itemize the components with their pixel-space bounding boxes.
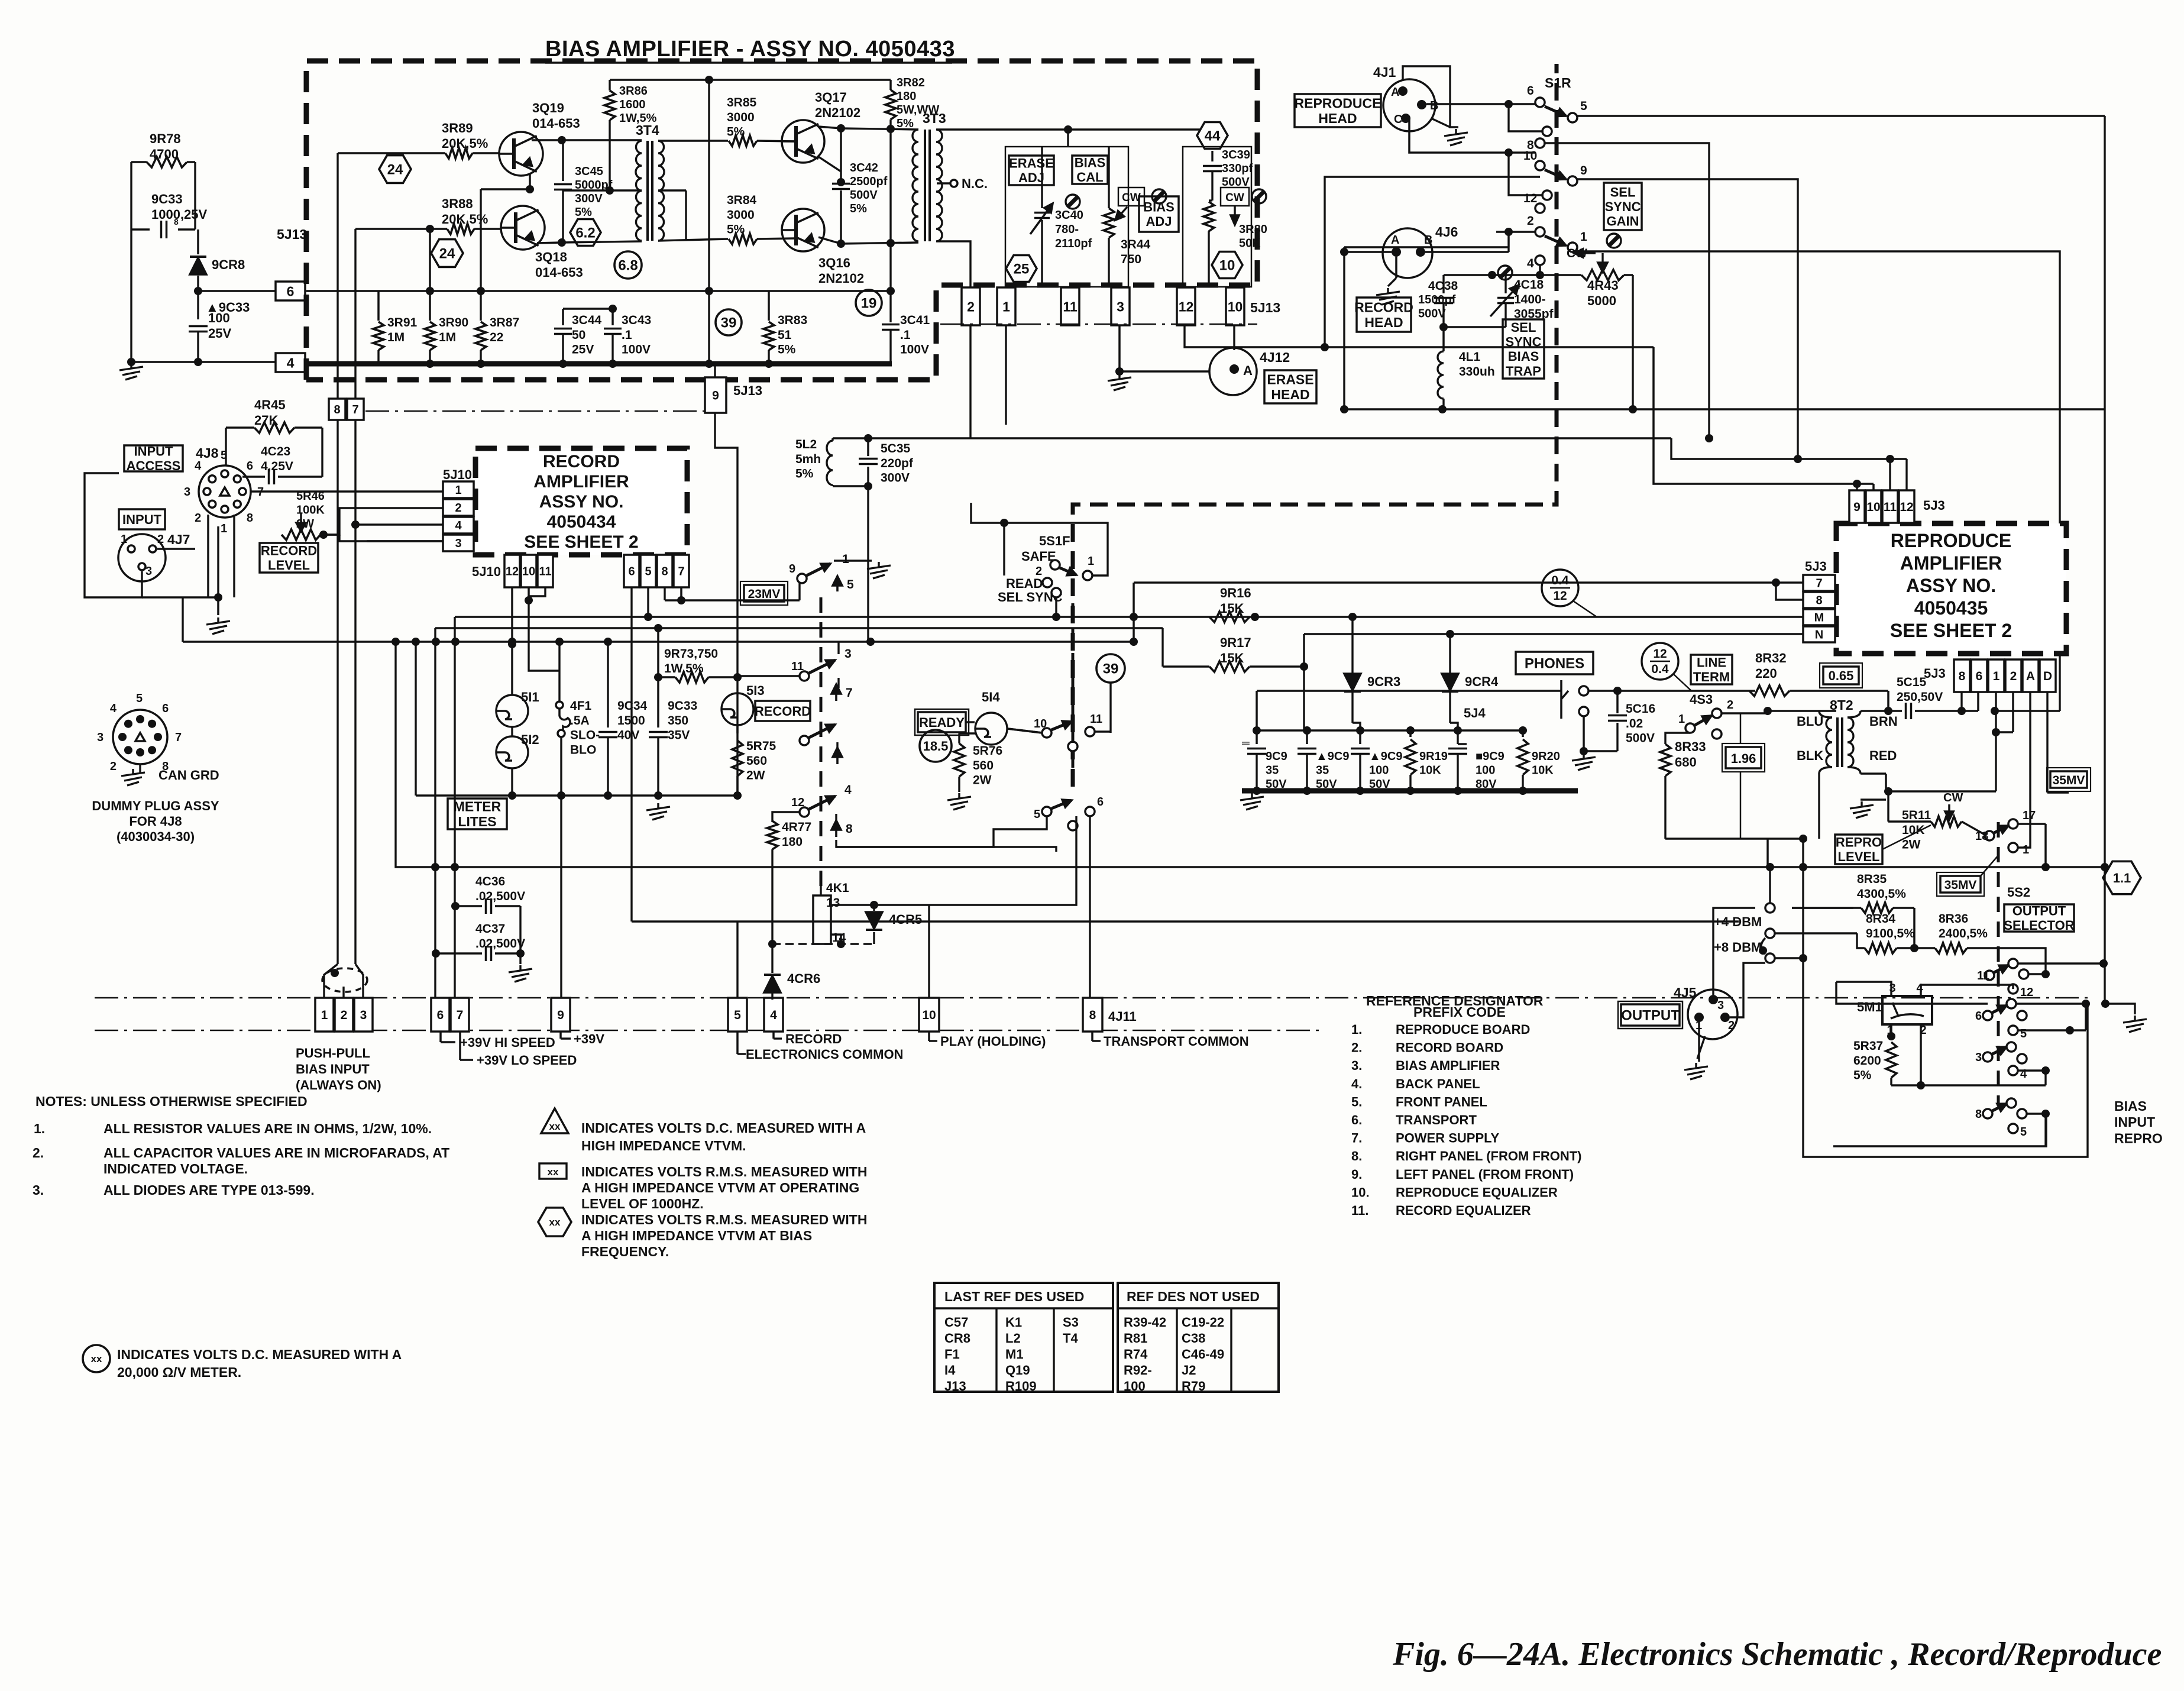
circle flag 39 (bias box) (716, 309, 742, 335)
svg-text:100V: 100V (900, 343, 929, 357)
svg-text:6.2: 6.2 (575, 225, 595, 241)
svg-text:HEAD: HEAD (1364, 315, 1403, 330)
svg-text:5C15: 5C15 (1897, 675, 1927, 689)
svg-text:ADJ: ADJ (1018, 170, 1044, 185)
ground (under 5J13-3) (1118, 374, 1120, 379)
svg-text:2W: 2W (973, 774, 992, 787)
svg-text:A HIGH IMPEDANCE VTVM AT: A HIGH IMPEDANCE VTVM AT BIAS (581, 1228, 812, 1243)
lamp 5I1 (496, 695, 528, 727)
hex flag 24 (upper) (379, 156, 411, 183)
svg-text:3Q17: 3Q17 (815, 90, 847, 105)
switch 5S1 section A (11/3/7) (800, 671, 809, 681)
wire: 4J1-B to S1R-6 (1426, 103, 1535, 105)
svg-text:9R78: 9R78 (150, 131, 181, 146)
wire: meter lites common y1345 (416, 794, 737, 796)
resistor 3R87 22 (vertical) (475, 322, 486, 350)
svg-text:ADJ: ADJ (1146, 214, 1172, 229)
svg-text:METER: METER (454, 798, 501, 814)
svg-text:REPRODUCE: REPRODUCE (1891, 530, 2011, 551)
svg-text:LAST REF DES USED: LAST REF DES USED (944, 1289, 1084, 1304)
wire: 4J6-A to x2273 (1344, 251, 1392, 253)
capacitor 5C35 220pf 300V (831, 438, 833, 441)
svg-text:A: A (1243, 363, 1253, 378)
+4 DBM contact (1765, 903, 1775, 913)
svg-text:1: 1 (1580, 230, 1587, 244)
svg-text:Q19: Q19 (1005, 1363, 1030, 1378)
svg-text:330pf: 330pf (1222, 162, 1253, 175)
resistor 3R90 1M (vertical) (429, 229, 431, 321)
inductor 5L2 5mh 5% (827, 441, 833, 485)
switch 5/6 (transport) (1042, 807, 1051, 816)
svg-text:SEE SHEET 2: SEE SHEET 2 (524, 532, 638, 552)
svg-text:5: 5 (645, 565, 651, 578)
bias adjust sub-box (1183, 147, 1251, 287)
wire: 4J1 pin frame (1403, 66, 1458, 127)
wire: 6-line inside bias box (306, 290, 891, 292)
svg-text:PLAY (HOLDING): PLAY (HOLDING) (940, 1034, 1046, 1049)
svg-text:100: 100 (1124, 1379, 1146, 1393)
screw adjust (sel sync bias trap) (1498, 266, 1512, 280)
connector 5J10 pin 8 (bottom) (657, 555, 672, 587)
capacitor 5C15 250,50V (1888, 710, 1902, 712)
svg-text:18: 18 (1975, 830, 1988, 843)
wire: 4J1-C to S1R-10 (1409, 118, 1535, 153)
svg-text:Fig. 6—24A. Electronics Sc: Fig. 6—24A. Electronics Schematic , Reco… (1392, 1636, 2162, 1673)
svg-text:4050434: 4050434 (547, 512, 616, 532)
svg-text:20K,5%: 20K,5% (442, 136, 488, 151)
wire: switch 5/6 wiring (836, 816, 1047, 847)
svg-text:750: 750 (1121, 253, 1141, 266)
wire: 3Q18 emitter node (537, 243, 562, 243)
wire: 5J13-9 down to rail x1247 (715, 413, 737, 796)
svg-text:1: 1 (121, 533, 127, 546)
wire: 4J5 pin2 right (1730, 963, 1765, 1017)
connector 5J13 pin 9 (below bias box) (705, 377, 726, 413)
wire: sel sync switch 5S1F frame (971, 503, 1108, 575)
svg-text:35: 35 (1266, 764, 1279, 777)
wire: S1R-1 to x3483 (1576, 251, 2060, 711)
svg-text:2: 2 (1727, 699, 1733, 712)
svg-text:3Q18: 3Q18 (535, 250, 567, 264)
connector 5J10 pin 7 (bottom) (674, 555, 689, 587)
switch 9/1/5 (record relay contact) (797, 574, 807, 583)
connector 4J11 pin 9 (551, 998, 570, 1032)
svg-text:12: 12 (791, 796, 804, 809)
svg-text:R92-: R92- (1124, 1363, 1152, 1378)
svg-text:(4030034-30): (4030034-30) (117, 829, 195, 844)
svg-text:2: 2 (2010, 670, 2017, 683)
wire: 5J10-8/7 rails (664, 587, 665, 600)
connector 5J13 pin 2 (962, 287, 980, 325)
svg-text:RIGHT PANEL (FROM FRONT): RIGHT PANEL (FROM FRONT) (1396, 1149, 1582, 1163)
svg-text:CAN GRD: CAN GRD (158, 768, 219, 783)
svg-text:+39V LO SPEED: +39V LO SPEED (477, 1053, 577, 1068)
resistor 9R78 (147, 157, 187, 167)
switch output selector section 11/12 (1985, 971, 1994, 980)
svg-text:1: 1 (842, 552, 849, 566)
svg-text:50K: 50K (1239, 237, 1261, 250)
screw adjust (erase adj) (1066, 195, 1080, 209)
svg-text:12: 12 (1653, 647, 1667, 661)
wire: RED junction down (1885, 774, 1887, 791)
svg-text:5M1: 5M1 (1857, 1000, 1882, 1014)
svg-text:6: 6 (1527, 84, 1534, 98)
potentiometer 4R43 5000 (1581, 270, 1624, 280)
wire: S1R-5 to right vertical (1576, 115, 2105, 117)
svg-text:4.: 4. (1351, 1076, 1362, 1091)
connector 4J11 pin 10 (919, 998, 939, 1032)
svg-text:3R82: 3R82 (897, 76, 925, 89)
svg-text:DUMMY PLUG ASSY: DUMMY PLUG ASSY (92, 798, 219, 813)
svg-text:.1: .1 (622, 328, 632, 342)
svg-text:INDICATES VOLTS D.C. MEASUR: INDICATES VOLTS D.C. MEASURED WITH A (117, 1347, 402, 1362)
capacitor 9C34 1500 40V (607, 644, 609, 728)
dashed linkage 5S1F lower (1072, 603, 1075, 787)
wire: 3Q19 collector node (532, 139, 562, 141)
connector 5J13 pin 8 (below bias box) (329, 399, 345, 420)
svg-text:LEFT PANEL (FROM FRONT): LEFT PANEL (FROM FRONT) (1396, 1167, 1574, 1182)
diode 4CR5 (873, 905, 875, 911)
svg-text:RECORD: RECORD (543, 452, 620, 471)
wire: 3Q17 collector to x1422 (818, 127, 841, 128)
svg-text:C19-22: C19-22 (1182, 1315, 1224, 1330)
svg-text:HEAD: HEAD (1318, 111, 1357, 126)
connector 5J3 pin 9 (1849, 490, 1865, 523)
wire: head common y692 (1344, 408, 2105, 410)
svg-text:500V: 500V (850, 189, 878, 202)
svg-text:5: 5 (1034, 808, 1040, 821)
wire: S1R-4 down to 4R43 rail (1539, 265, 1541, 275)
svg-text:4: 4 (845, 783, 852, 797)
svg-text:3R87: 3R87 (490, 316, 519, 329)
wire: 4J8 pins down (207, 515, 209, 597)
svg-text:5J3: 5J3 (1923, 498, 1945, 513)
svg-text:9100,5%: 9100,5% (1866, 927, 1915, 940)
capacitor bank 9C9 100 50V (3) (1359, 730, 1361, 744)
svg-text:7: 7 (678, 565, 684, 578)
diode 4CR6 (771, 944, 773, 973)
ground (4J6) (1395, 257, 1397, 278)
svg-text:180: 180 (782, 835, 803, 849)
wire: 5J3 bottom stubs (1960, 692, 1962, 711)
svg-text:3000: 3000 (727, 208, 755, 222)
wire: bias supply top-left loop (130, 162, 132, 362)
svg-text:22: 22 (490, 331, 503, 344)
svg-text:4J6: 4J6 (1435, 224, 1458, 240)
ground (dummy plug) CAN GRD (132, 769, 134, 774)
svg-text:3T3: 3T3 (923, 111, 946, 126)
svg-text:5I1: 5I1 (521, 690, 539, 704)
connector 5J10 pin 10 (bottom) (521, 555, 536, 587)
wire: 10 stub (928, 1032, 930, 1041)
svg-text:9R73,750: 9R73,750 (664, 647, 718, 661)
svg-text:10K: 10K (1532, 764, 1554, 777)
wire: x2993 from 8T2 area (1769, 867, 1771, 903)
svg-text:BIAS: BIAS (2114, 1098, 2147, 1114)
wire: 6/7 stubs (439, 1032, 442, 1042)
svg-text:▲9C9: ▲9C9 (1316, 750, 1349, 763)
legend hexagon flag (538, 1208, 571, 1236)
connector 5J3 pin 2 (bottom) (2005, 659, 2021, 692)
svg-text:7: 7 (1816, 577, 1822, 590)
connector 4J1 reproduce head (1383, 79, 1435, 131)
svg-text:3: 3 (184, 486, 190, 499)
svg-text:RECORD: RECORD (261, 544, 317, 558)
S1R arm 2-1 (1545, 236, 1566, 245)
svg-text:6: 6 (1097, 796, 1104, 809)
svg-text:4,25V: 4,25V (261, 460, 293, 473)
circle flag 18.5 (920, 730, 952, 762)
boxed label REPRO LEVEL (1835, 835, 1882, 864)
svg-text:BIAS INPUT: BIAS INPUT (296, 1062, 370, 1076)
svg-text:7: 7 (175, 731, 182, 744)
svg-text:CW: CW (1943, 791, 1963, 804)
svg-text:2: 2 (157, 533, 164, 546)
resistor 9R73,750 1W,5% (675, 672, 708, 683)
resistor 8R35 4300,5% (1861, 903, 1893, 913)
svg-text:4R77: 4R77 (782, 820, 811, 834)
+8 DBM lower contact (1765, 953, 1775, 963)
boxed label 35MV (upper) (2050, 771, 2087, 788)
capacitor bank 9C9 100 80V (4) (1457, 730, 1458, 744)
svg-text:2500pf: 2500pf (850, 175, 888, 188)
svg-text:4J11: 4J11 (1108, 1009, 1137, 1024)
svg-text:4C23: 4C23 (261, 445, 290, 458)
boxed label RECORD LEVEL (260, 543, 318, 573)
svg-text:4L1: 4L1 (1459, 350, 1481, 364)
svg-text:11: 11 (539, 565, 551, 578)
svg-text:100K: 100K (296, 504, 325, 517)
wire: 4C38/4C18 bottom rail (1444, 326, 1506, 328)
svg-text:680: 680 (1675, 755, 1697, 769)
ground (5R76) (958, 793, 960, 798)
resistor 4R77 180 (767, 821, 778, 849)
svg-text:2: 2 (455, 502, 461, 515)
svg-text:1: 1 (1678, 713, 1685, 726)
svg-text:TRAP: TRAP (1506, 364, 1541, 379)
svg-text:1W,5%: 1W,5% (664, 662, 704, 675)
svg-text:C38: C38 (1182, 1331, 1205, 1346)
circle flag 19 (856, 290, 882, 316)
wire: +4/+8 dbm wires (1792, 907, 1853, 908)
wire: meter pin3 (1836, 982, 1891, 996)
svg-text:3: 3 (145, 565, 152, 578)
svg-text:3: 3 (1117, 299, 1124, 314)
resistor 3R85 3000 5% (729, 135, 757, 146)
connector 4J11 pin 2 (335, 998, 353, 1032)
wire: x1506 rail down (889, 129, 891, 322)
svg-text:■9C9: ■9C9 (1476, 750, 1504, 763)
svg-text:BLU: BLU (1797, 714, 1823, 729)
svg-text:8: 8 (1816, 594, 1822, 607)
switch 5S1 section B (800, 736, 809, 745)
wire: meter pin2 down (1920, 1024, 1922, 1085)
svg-text:39: 39 (721, 315, 737, 331)
flag 1.96 (1726, 747, 1761, 768)
ground (8T2 RED) (1861, 798, 1886, 800)
svg-text:5C35: 5C35 (881, 442, 911, 455)
svg-text:50: 50 (572, 328, 585, 342)
variable capacitor 4C18 1400-3055pf (1504, 275, 1506, 293)
svg-text:.02,500V: .02,500V (475, 890, 525, 903)
switch output selector section 6/5 (1983, 1011, 1992, 1020)
hex flag 6.2 (570, 219, 601, 246)
wire: phones to 5C16 (1588, 690, 1617, 692)
svg-text:3Q16: 3Q16 (818, 256, 850, 270)
wire: selector to right verticals (2044, 963, 2046, 974)
relay linkage dashed (5S1) (820, 597, 823, 895)
svg-text:40V: 40V (617, 729, 639, 742)
svg-text:5: 5 (136, 692, 143, 705)
svg-text:0.4: 0.4 (1551, 574, 1569, 587)
wire: S1R-12 contact route (1325, 177, 1540, 347)
svg-text:3R84: 3R84 (727, 193, 757, 207)
wire: 44 stub to 3C39 (1211, 151, 1213, 161)
svg-text:6: 6 (1976, 670, 1983, 683)
wire: x309 from input ground loop (182, 597, 183, 642)
svg-text:35MV: 35MV (2053, 774, 2085, 787)
svg-text:1: 1 (1993, 670, 2000, 683)
svg-text:6.8: 6.8 (618, 258, 638, 274)
svg-text:PUSH-PULL: PUSH-PULL (296, 1046, 370, 1060)
svg-text:N.C.: N.C. (962, 176, 988, 191)
capacitor 3C42 2500pf 500V 5% (840, 128, 842, 179)
svg-text:5%: 5% (727, 125, 745, 139)
svg-text:10: 10 (1866, 500, 1880, 514)
wire: x736 rail down to 4J11-6 (434, 628, 436, 998)
svg-text:+4 DBM: +4 DBM (1714, 914, 1762, 929)
wire: 9C9 bank top rail (1257, 729, 1523, 731)
svg-text:6200: 6200 (1853, 1054, 1881, 1068)
resistor 8R32 220 (1749, 686, 1790, 696)
svg-text:SEL: SEL (1511, 320, 1536, 335)
svg-text:SLO-: SLO- (570, 729, 600, 742)
svg-text:1600: 1600 (619, 98, 646, 111)
resistor 8R36 2400,5% (1935, 943, 1967, 953)
svg-text:3R91: 3R91 (387, 316, 418, 329)
svg-text:═: ═ (1241, 737, 1250, 749)
svg-text:RECORD: RECORD (1354, 299, 1413, 315)
svg-text:10: 10 (1034, 717, 1047, 730)
wire: long rail L3 y1085 (183, 641, 1134, 642)
boxed label INPUT ACCESS (124, 445, 183, 471)
svg-text:3R89: 3R89 (442, 121, 473, 135)
wire: rail x1247 segments (733, 791, 742, 800)
wire: x2205 link (1303, 634, 1305, 730)
svg-text:.5A: .5A (570, 714, 590, 728)
svg-text:1500pf: 1500pf (1418, 293, 1456, 306)
svg-text:4300,5%: 4300,5% (1857, 887, 1906, 901)
svg-text:REPRO: REPRO (1836, 835, 1882, 850)
wire: dbm contacts to resistors (1775, 932, 1792, 934)
svg-text:ASSY NO.: ASSY NO. (1906, 575, 1996, 596)
svg-text:300V: 300V (881, 471, 910, 485)
svg-text:4: 4 (770, 1008, 777, 1022)
svg-text:S1R: S1R (1545, 75, 1571, 90)
boxed label OUTPUT SELECTOR (2004, 904, 2074, 932)
svg-text:6: 6 (1975, 1010, 1982, 1023)
svg-text:CR8: CR8 (944, 1331, 970, 1346)
svg-text:13: 13 (826, 896, 840, 910)
svg-text:ACCESS: ACCESS (127, 458, 181, 473)
svg-text:5J10: 5J10 (443, 467, 472, 482)
wire: long rail to 5J3-7 (1134, 581, 1776, 584)
potentiometer 5R11 10K 2W (1931, 816, 1962, 827)
legend circle flag (83, 1345, 110, 1372)
svg-text:12: 12 (1523, 192, 1537, 205)
svg-text:A: A (2026, 670, 2035, 683)
connector 5J13 pin 10 (1226, 287, 1244, 325)
svg-text:REF DES NOT USED: REF DES NOT USED (1127, 1289, 1260, 1304)
svg-text:I4: I4 (944, 1363, 956, 1378)
wire: S1R-8 to x2890 (1544, 143, 1709, 438)
svg-text:6: 6 (247, 460, 253, 473)
svg-text:500V: 500V (1418, 308, 1446, 321)
chain line through 5J13 row (940, 324, 1257, 325)
connector 5J3 pin 8 (1803, 592, 1835, 608)
svg-text:8R32: 8R32 (1755, 651, 1787, 665)
svg-text:L2: L2 (1005, 1331, 1021, 1346)
svg-text:3Q19: 3Q19 (532, 101, 564, 115)
svg-text:17: 17 (2023, 809, 2036, 822)
wire: y1015 to record relay switch (681, 599, 800, 601)
wire: x601 bias input rail (354, 229, 356, 964)
S1R contact 8 (1535, 138, 1545, 148)
ground (input) (217, 617, 219, 622)
svg-text:4C38: 4C38 (1428, 279, 1458, 293)
bus: bias common (thick) (306, 361, 892, 367)
wire: 9 stub (559, 1032, 562, 1039)
wire: x1199 rail (708, 80, 710, 364)
connector 5J13 pin 7 (below bias box) (347, 399, 364, 420)
connector 4J11 pin 3 (354, 998, 373, 1032)
circle flag 0.4/12 (1542, 570, 1578, 606)
svg-text:REPRODUCE BOARD: REPRODUCE BOARD (1396, 1022, 1530, 1037)
svg-text:100: 100 (1369, 764, 1389, 777)
wire: 1.96 measurement line (1740, 713, 1742, 743)
svg-text:9: 9 (1853, 500, 1861, 514)
svg-text:2400,5%: 2400,5% (1939, 927, 1988, 940)
boxed label METER LITES (448, 798, 507, 829)
svg-text:1.1: 1.1 (2113, 871, 2131, 885)
svg-text:9CR8: 9CR8 (212, 257, 245, 272)
boxed label OUTPUT (1621, 1004, 1680, 1026)
connector 4J6 record head (1383, 228, 1432, 278)
wire: x769 rail down to 4J11-7 (454, 617, 455, 998)
svg-text:TRANSPORT: TRANSPORT (1396, 1113, 1477, 1127)
svg-text:330uh: 330uh (1459, 365, 1495, 379)
head assembly dashed boundary (1073, 64, 1557, 787)
svg-text:300V: 300V (575, 192, 603, 205)
svg-text:3C41: 3C41 (900, 313, 930, 327)
svg-text:25V: 25V (572, 343, 594, 357)
svg-text:R74: R74 (1124, 1347, 1148, 1362)
svg-text:3T4: 3T4 (636, 122, 659, 138)
wire: feeds into 5J3 9-12 from left (868, 437, 1671, 439)
hex flag 10 (1212, 252, 1243, 279)
resistor 5R76 560 2W (958, 733, 960, 743)
wire: 3Q16 collector rail (818, 237, 841, 244)
wire: y1168 to line term (1617, 690, 1755, 691)
svg-text:3.: 3. (1351, 1058, 1362, 1073)
svg-text:5L2: 5L2 (795, 438, 817, 451)
svg-text:AMPLIFIER: AMPLIFIER (533, 472, 629, 492)
ground (record relay) (834, 560, 872, 561)
svg-text:OUTPUT: OUTPUT (1621, 1008, 1680, 1024)
svg-text:9R17: 9R17 (1220, 635, 1251, 650)
resistor 3R88 20K,5% (447, 224, 474, 234)
svg-text:8.: 8. (1351, 1149, 1362, 1163)
